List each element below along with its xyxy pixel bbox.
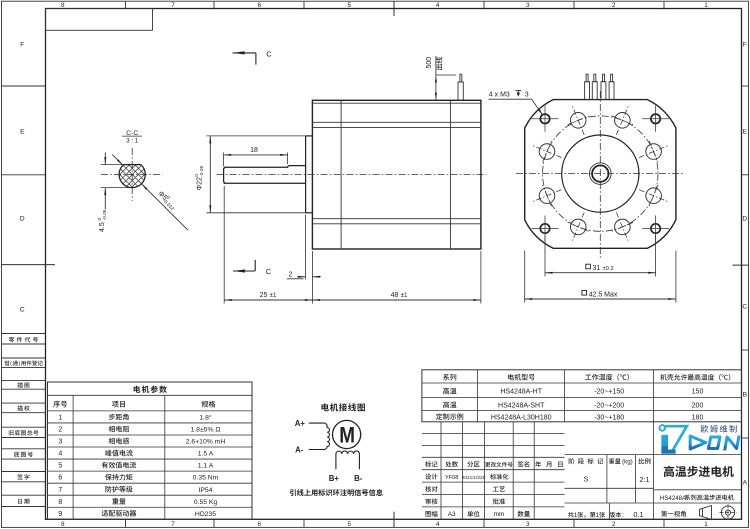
svg-text:6: 6 bbox=[258, 2, 262, 9]
svg-text:mm: mm bbox=[494, 511, 505, 518]
company name in logo bbox=[701, 425, 737, 433]
centering mark top bbox=[393, 1, 395, 16]
dimension 48 line bbox=[312, 299, 481, 301]
dimension phi22 text bbox=[194, 165, 205, 190]
svg-text:0.55 Kg: 0.55 Kg bbox=[194, 499, 218, 506]
svg-text:A3: A3 bbox=[448, 511, 456, 518]
svg-text:0.1: 0.1 bbox=[634, 510, 644, 519]
svg-text:18: 18 bbox=[250, 147, 258, 154]
svg-text:2021/10/29: 2021/10/29 bbox=[462, 475, 486, 480]
centering mark bottom bbox=[393, 512, 395, 528]
svg-text:Φ22: Φ22 bbox=[196, 177, 203, 190]
svg-text:2: 2 bbox=[58, 427, 62, 434]
svg-text:6: 6 bbox=[58, 475, 62, 482]
front view connector pins bbox=[585, 82, 590, 100]
front view pilot boss circle bbox=[562, 135, 639, 212]
svg-text:2.6+10% mH: 2.6+10% mH bbox=[186, 439, 226, 446]
svg-text:8: 8 bbox=[61, 521, 65, 528]
wiring diagram title bbox=[321, 403, 364, 411]
svg-text:8: 8 bbox=[58, 499, 62, 506]
dimension 4.5 extension lines bbox=[101, 164, 124, 166]
svg-text:D: D bbox=[742, 216, 747, 223]
svg-text:HS4248A-SHT: HS4248A-SHT bbox=[498, 402, 545, 409]
dimension square31 extension lines bbox=[544, 235, 546, 277]
svg-text:1: 1 bbox=[704, 2, 708, 9]
svg-text:7: 7 bbox=[171, 521, 175, 528]
svg-text:3: 3 bbox=[525, 92, 529, 99]
svg-text:1.8°: 1.8° bbox=[199, 414, 211, 422]
svg-text:1.1 A: 1.1 A bbox=[198, 463, 214, 470]
svg-text:(kg): (kg) bbox=[622, 459, 633, 466]
svg-text:5: 5 bbox=[348, 521, 352, 528]
svg-text:25: 25 bbox=[260, 292, 268, 299]
svg-text:2: 2 bbox=[612, 2, 616, 9]
svg-text:±1: ±1 bbox=[401, 292, 408, 299]
svg-text:180: 180 bbox=[692, 414, 704, 421]
section C-C centerlines bbox=[101, 174, 163, 176]
phase B coil and wires bbox=[336, 451, 360, 469]
side view shaft outline bbox=[224, 166, 306, 184]
dimension 2 line and arrows bbox=[297, 276, 305, 278]
series table grid bbox=[422, 370, 742, 422]
svg-text:E: E bbox=[743, 129, 748, 136]
svg-text:4: 4 bbox=[58, 451, 62, 458]
svg-text:500: 500 bbox=[426, 57, 433, 69]
series table row custom bbox=[436, 413, 463, 420]
side view motor body outline bbox=[312, 100, 481, 249]
svg-text:1: 1 bbox=[574, 512, 578, 519]
svg-text:B: B bbox=[743, 392, 748, 399]
wiring note bbox=[290, 489, 383, 496]
svg-text:A: A bbox=[743, 480, 748, 487]
title block signature rows grid bbox=[422, 469, 565, 471]
side view end cap lines bbox=[340, 100, 342, 249]
series table row HT bbox=[443, 388, 456, 395]
svg-text:IP54: IP54 bbox=[199, 487, 213, 494]
section C-C shaft outline with flat bbox=[119, 165, 145, 188]
dimension 25/48 shared extension line bbox=[311, 251, 313, 304]
first angle projection label bbox=[661, 511, 686, 517]
svg-text:200: 200 bbox=[692, 402, 704, 409]
dimension phi22 line bbox=[209, 136, 211, 213]
series table header row bbox=[443, 374, 456, 381]
svg-text:C: C bbox=[20, 307, 25, 314]
svg-text:9: 9 bbox=[58, 511, 62, 518]
svg-text:HD235: HD235 bbox=[195, 511, 216, 518]
stage mark section grid bbox=[565, 454, 742, 456]
svg-text:): ) bbox=[19, 361, 21, 367]
sheet format row bbox=[426, 511, 438, 517]
front view flange outline bbox=[525, 100, 676, 249]
side view top seam line bbox=[312, 102, 481, 104]
svg-text:2: 2 bbox=[612, 521, 616, 528]
svg-text:-20~+150: -20~+150 bbox=[594, 389, 624, 396]
svg-text:0.35 Nm: 0.35 Nm bbox=[193, 475, 219, 482]
svg-text:1.5 A: 1.5 A bbox=[198, 451, 214, 458]
svg-text:5: 5 bbox=[58, 463, 62, 470]
svg-text:2:1: 2:1 bbox=[639, 475, 649, 484]
left margin label boxes bbox=[2, 333, 46, 335]
svg-text:HS4248A-L30H180: HS4248A-L30H180 bbox=[491, 414, 552, 421]
front view mounting stud holes bbox=[646, 188, 662, 204]
dimension 25 line bbox=[224, 299, 312, 301]
svg-text:A-: A- bbox=[295, 446, 304, 455]
svg-text:D: D bbox=[20, 216, 25, 223]
first angle projection symbol bbox=[700, 504, 737, 521]
side view connector pin bbox=[458, 82, 463, 100]
left margin box labels bbox=[9, 337, 38, 342]
svg-text:-30~+180: -30~+180 bbox=[594, 414, 624, 421]
front view bolt pitch circle bbox=[543, 116, 658, 231]
dimension 18 line bbox=[224, 154, 288, 156]
parameter table grid bbox=[48, 382, 253, 519]
svg-text:F: F bbox=[743, 42, 747, 49]
svg-text::: : bbox=[622, 512, 624, 519]
dimension phi5 text bbox=[155, 189, 178, 212]
svg-text:8: 8 bbox=[61, 2, 65, 9]
sheet count row bbox=[568, 512, 574, 518]
svg-text:3: 3 bbox=[58, 439, 62, 446]
product title bbox=[664, 466, 734, 477]
svg-text:7: 7 bbox=[58, 487, 62, 494]
svg-text:HS4248A-HT: HS4248A-HT bbox=[500, 389, 542, 396]
phase A coil and wires bbox=[309, 423, 330, 449]
dimension 2 extension line bbox=[305, 215, 307, 280]
front view corner screw holes M3 bbox=[540, 114, 549, 123]
grid column ticks bottom bbox=[125, 519, 127, 527]
svg-text:48: 48 bbox=[391, 292, 399, 299]
svg-text:150: 150 bbox=[692, 389, 704, 396]
dimension square42.5 line bbox=[525, 298, 676, 300]
svg-text:1: 1 bbox=[58, 415, 62, 422]
dimension square31 text bbox=[586, 264, 591, 269]
dimension square42.5 text bbox=[582, 291, 587, 296]
svg-text:F: F bbox=[20, 42, 24, 49]
svg-text:HS4248A: HS4248A bbox=[660, 495, 687, 502]
front view center crosshair bbox=[516, 173, 685, 175]
svg-text:-20~+200: -20~+200 bbox=[594, 402, 624, 409]
svg-text:S: S bbox=[584, 475, 589, 484]
svg-text:(: ( bbox=[10, 361, 12, 367]
dimension 4.5 text bbox=[97, 209, 108, 232]
series table row SHT bbox=[443, 401, 456, 408]
dimension 48 extension line right bbox=[480, 251, 482, 304]
svg-text:1: 1 bbox=[704, 521, 708, 528]
parameter table header bbox=[134, 385, 167, 392]
parameter table column titles bbox=[53, 401, 67, 408]
svg-text:42.5 Max: 42.5 Max bbox=[589, 292, 618, 299]
svg-text:M: M bbox=[339, 423, 355, 448]
side view chamfer edge lines bbox=[312, 121, 481, 123]
svg-text:E: E bbox=[20, 129, 25, 136]
side view pilot boss bbox=[305, 136, 307, 213]
title block revision rows grid bbox=[422, 433, 565, 435]
svg-text:4: 4 bbox=[436, 521, 440, 528]
svg-text:1.8±5% Ω: 1.8±5% Ω bbox=[191, 427, 221, 434]
dimension square42.5 extension lines bbox=[524, 251, 526, 303]
svg-text:B+: B+ bbox=[329, 474, 340, 483]
checker row bbox=[425, 486, 437, 492]
svg-text:C: C bbox=[266, 50, 272, 59]
revision header labels bbox=[425, 461, 437, 467]
side view centerline bbox=[217, 173, 487, 175]
svg-text:3: 3 bbox=[526, 2, 530, 9]
front view shaft circles bbox=[590, 163, 612, 185]
section cut mark C top bbox=[233, 52, 256, 54]
dimension phi22 extension lines bbox=[207, 135, 306, 137]
dimension phi5 leader bbox=[112, 155, 123, 166]
svg-text:4 x M3: 4 x M3 bbox=[489, 92, 510, 99]
centering mark left / row line D-C bbox=[2, 264, 56, 266]
svg-text:±1: ±1 bbox=[270, 292, 277, 299]
dimension square31 line bbox=[545, 272, 656, 274]
centering mark right bbox=[732, 264, 748, 266]
svg-text:3: 3 bbox=[526, 521, 530, 528]
dimension 25 extension line left bbox=[223, 186, 225, 304]
svg-text:1: 1 bbox=[596, 512, 600, 519]
grid row lines left margin bbox=[2, 85, 46, 87]
svg-text:C: C bbox=[266, 267, 272, 276]
svg-text:7: 7 bbox=[171, 2, 175, 9]
svg-text:C: C bbox=[742, 304, 747, 311]
svg-text:B-: B- bbox=[354, 474, 363, 483]
svg-text:-0.05: -0.05 bbox=[102, 209, 108, 220]
svg-text:A+: A+ bbox=[295, 419, 306, 428]
auditor row bbox=[425, 498, 437, 504]
stage mark labels bbox=[569, 458, 604, 464]
dimension 4.5 lines and arrows bbox=[104, 153, 106, 165]
svg-text:4.5: 4.5 bbox=[99, 222, 106, 232]
sheet count row divider bbox=[609, 503, 611, 519]
dimension 18 extension lines bbox=[223, 153, 225, 167]
grid row ticks right margin bbox=[742, 85, 749, 87]
svg-text:YF08: YF08 bbox=[445, 475, 458, 481]
svg-text:31: 31 bbox=[593, 265, 601, 272]
grid column ticks top bbox=[125, 1, 127, 8]
svg-text:5: 5 bbox=[348, 2, 352, 9]
motor symbol M bbox=[333, 420, 361, 448]
svg-text:-0.05: -0.05 bbox=[199, 165, 205, 176]
top-left accessory box bbox=[46, 9, 153, 31]
dimension 500 lead length bbox=[435, 56, 437, 100]
svg-text:±0.2: ±0.2 bbox=[603, 266, 614, 272]
svg-text:6: 6 bbox=[258, 521, 262, 528]
section cut mark C bottom bbox=[233, 270, 255, 272]
svg-text:3 : 1: 3 : 1 bbox=[126, 138, 139, 145]
svg-text:4: 4 bbox=[436, 2, 440, 9]
svg-text:2: 2 bbox=[289, 271, 293, 278]
designer row bbox=[425, 474, 437, 480]
